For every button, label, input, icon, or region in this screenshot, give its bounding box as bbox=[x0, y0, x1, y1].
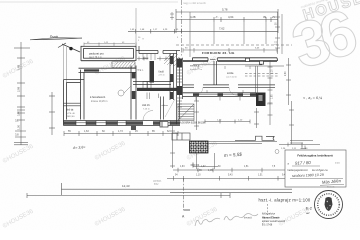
svg-text:lev.d.figar.ca: lev.d.figar.ca bbox=[312, 168, 328, 172]
svg-text:főmérnök: főmérnök bbox=[327, 186, 335, 188]
big room right wall bbox=[131, 66, 136, 120]
svg-text:2,11: 2,11 bbox=[276, 40, 278, 45]
svg-text:1,63: 1,63 bbox=[180, 166, 185, 168]
stamp box bbox=[285, 150, 346, 187]
dim chain below right block bbox=[205, 120, 250, 124]
left steps structure bbox=[172, 133, 190, 140]
masonry piers shared wall bbox=[177, 59, 182, 96]
mark above box bbox=[301, 146, 307, 149]
svg-text:építész vezető tervező: építész vezető tervező bbox=[262, 220, 286, 223]
svg-text:Felülvizsgálva lordelkezett: Felülvizsgálva lordelkezett bbox=[297, 153, 332, 157]
svg-text:1,73: 1,73 bbox=[118, 130, 123, 133]
terrace inner line bbox=[193, 64, 262, 66]
svg-text:lérg a.: lérg a. bbox=[138, 69, 144, 72]
lowest dim line bbox=[27, 193, 230, 198]
lines from chimney bbox=[208, 142, 277, 144]
lower terrace wall bbox=[235, 136, 275, 140]
bath wall dark segs bbox=[170, 56, 173, 99]
left dim label marks bbox=[15, 110, 26, 137]
top dim extension verticals right block bbox=[190, 12, 282, 57]
svg-text:krónt: krónt bbox=[335, 162, 340, 165]
bottom dim chain row 2 bbox=[167, 176, 292, 181]
svg-text:-7-: -7- bbox=[215, 15, 218, 19]
watermark grid small bbox=[2, 55, 311, 230]
bottom dim chain row 1 bbox=[173, 168, 292, 173]
svg-text:padozat pro: padozat pro bbox=[89, 52, 104, 56]
tick cluster mid bbox=[170, 12, 174, 20]
svg-text:tervező:: tervező: bbox=[244, 217, 253, 220]
svg-text:Hámori Elemér: Hámori Elemér bbox=[262, 217, 280, 220]
right dim tiny texts bbox=[272, 22, 288, 99]
svg-text:előszo: előszo bbox=[162, 105, 169, 107]
svg-text:39: 39 bbox=[263, 15, 267, 19]
dashed property line bbox=[176, 44, 292, 46]
svg-text:hszt.-i. alaprajz m=1:100: hszt.-i. alaprajz m=1:100 bbox=[259, 197, 311, 202]
svg-text:1,51: 1,51 bbox=[258, 174, 263, 176]
middle section top walls bbox=[136, 46, 180, 54]
svg-text:2,98: 2,98 bbox=[17, 86, 21, 92]
svg-text:1,85: 1,85 bbox=[272, 94, 274, 99]
bottom wall window mullions bbox=[76, 121, 170, 126]
svg-text:E-2: E-2 bbox=[306, 207, 312, 211]
tiny dim text row y29 bbox=[130, 29, 179, 31]
dim vertical below pier bbox=[254, 108, 259, 128]
svg-text:1,63: 1,63 bbox=[84, 130, 89, 133]
svg-text:2,10: 2,10 bbox=[272, 69, 274, 74]
staircase down bbox=[178, 104, 194, 121]
svg-text:szoba: szoba bbox=[227, 72, 234, 75]
svg-text:4,28: 4,28 bbox=[190, 15, 196, 19]
dim vertical right of stairs bbox=[194, 97, 199, 131]
terrace railing bar bbox=[183, 58, 278, 61]
corridor tick marks bbox=[147, 93, 159, 100]
room padozat outer wall bbox=[81, 46, 136, 60]
svg-text:ad: ad bbox=[306, 211, 310, 215]
chimney hatched bbox=[190, 141, 209, 153]
right block room divider bbox=[214, 61, 217, 85]
dim tick chain above terrace bbox=[183, 48, 277, 53]
right block mid wall bbox=[183, 85, 276, 87]
svg-text:1,51: 1,51 bbox=[244, 166, 249, 168]
right block bottom wall bbox=[183, 93, 257, 97]
left block top wall bbox=[79, 68, 137, 72]
svg-text:7,62: 7,62 bbox=[219, 27, 225, 31]
svg-text:5,T5L 40: 5,T5L 40 bbox=[67, 113, 76, 115]
north arrow spindle bbox=[30, 38, 82, 40]
middle thick wall y88 bbox=[137, 88, 180, 91]
signature squiggle bbox=[195, 214, 258, 227]
svg-text:12,43: 12,43 bbox=[122, 184, 130, 188]
section line dash-dot bbox=[181, 0, 183, 57]
svg-text:Észak: Észak bbox=[50, 34, 59, 39]
terrace steps zone verticals bbox=[245, 66, 284, 94]
svg-text:917 / 80: 917 / 80 bbox=[295, 160, 312, 166]
stair treads bbox=[143, 54, 155, 61]
door swings corridor bbox=[195, 87, 203, 95]
svg-text:kürtőlő - 7 rz: kürtőlő - 7 rz bbox=[190, 68, 202, 71]
svg-text:fürdő: fürdő bbox=[159, 71, 165, 74]
svg-text:mellért h.: mellért h. bbox=[190, 65, 200, 68]
svg-text:5,78: 5,78 bbox=[222, 8, 228, 12]
left block outer left wall bbox=[64, 80, 85, 125]
svg-text:1,05: 1,05 bbox=[208, 169, 213, 172]
bath left wall dark bbox=[150, 61, 155, 83]
svg-text:nagy s mlkl tervezői: nagy s mlkl tervezői bbox=[183, 1, 206, 5]
bottom dim texts bbox=[68, 130, 170, 133]
right wall pier dark bbox=[256, 93, 266, 107]
svg-text:FORDHOM 36. HG: FORDHOM 36. HG bbox=[202, 51, 235, 55]
left dim line bbox=[14, 42, 30, 145]
left dim line 2 bbox=[49, 92, 55, 135]
svg-text:k.feresbeszó: k.feresbeszó bbox=[90, 95, 106, 99]
bath fixtures bbox=[143, 82, 147, 89]
svg-text:A≈ 3,6≈: A≈ 3,6≈ bbox=[72, 145, 86, 150]
svg-text:kmése 10,26 m: kmése 10,26 m bbox=[91, 100, 107, 103]
north arrow pointer bbox=[58, 43, 80, 52]
svg-text:4,64: 4,64 bbox=[228, 15, 234, 19]
big room left wall bbox=[81, 70, 85, 120]
small circle mark bbox=[275, 150, 279, 154]
svg-text:5,43: 5,43 bbox=[228, 174, 233, 176]
big room right wall dark segs bbox=[132, 72, 136, 99]
circular stamp bbox=[315, 191, 343, 219]
svg-text:≈ , a₁ = 6,¼: ≈ , a₁ = 6,¼ bbox=[303, 96, 323, 100]
bottom wall left block bbox=[64, 121, 181, 126]
svg-text:denz 79,1 m: denz 79,1 m bbox=[89, 57, 102, 59]
hatched ramp sliver bbox=[112, 62, 135, 68]
top dim chain right section bbox=[128, 9, 278, 34]
room tick marks bbox=[198, 66, 250, 93]
tiny marks below dim row bbox=[138, 37, 179, 42]
railing posts bbox=[246, 58, 264, 64]
dim tick row mid section bbox=[137, 57, 170, 61]
left strip divider wall bbox=[64, 103, 81, 106]
Ob cross mark bbox=[191, 163, 196, 168]
svg-text:1,97: 1,97 bbox=[201, 166, 206, 168]
thin line under padozat bbox=[81, 60, 112, 62]
svg-text:Műszakisz: Műszakisz bbox=[262, 212, 276, 216]
section line A bottom bbox=[183, 178, 185, 210]
north arrow dot bbox=[69, 47, 72, 50]
right side dim chains bbox=[268, 58, 321, 147]
bottom dim chain under left block bbox=[64, 131, 178, 136]
svg-text:1,98: 1,98 bbox=[17, 64, 21, 70]
dims below chimney bbox=[193, 153, 218, 169]
svg-text:A,50·BRA 6,EBK BK15R: A,50·BRA 6,EBK BK15R bbox=[180, 122, 205, 125]
main bottom line bbox=[62, 183, 293, 195]
small room diag bbox=[165, 99, 175, 117]
bath room walls bbox=[170, 53, 173, 100]
svg-text:kkő tár.: kkő tár. bbox=[67, 109, 75, 112]
shared thick wall middle-right bbox=[177, 51, 183, 125]
big room door circle bbox=[118, 90, 124, 96]
svg-text:hatóanyagszámront: hatóanyagszámront bbox=[288, 169, 309, 172]
ciko room walls bbox=[161, 97, 164, 120]
left column dims below plan bbox=[170, 125, 175, 168]
svg-text:kúsz: kúsz bbox=[154, 184, 159, 186]
shared wall poche rungs bbox=[177, 70, 182, 107]
left wall extension lines bbox=[64, 44, 67, 83]
overhang dashed bbox=[245, 74, 279, 77]
entry stub below wall bbox=[131, 126, 136, 131]
section A corner mark bbox=[184, 209, 191, 211]
tiled room hatch bbox=[164, 53, 179, 66]
door swing bottom bbox=[143, 111, 153, 121]
dim ticks above padozat bbox=[84, 43, 136, 47]
right bottom wall masonry bbox=[193, 93, 256, 96]
tick marks below bottom wall bbox=[196, 97, 240, 101]
bottom wall masonry chunks bbox=[64, 121, 181, 125]
svg-text:2,40: 2,40 bbox=[285, 71, 287, 76]
top wall dark segment bbox=[84, 69, 99, 71]
small bench lower left bbox=[160, 122, 168, 128]
svg-text:1,10: 1,10 bbox=[196, 174, 201, 176]
bottom wall window lines bbox=[199, 94, 250, 96]
top dim texts bbox=[190, 8, 276, 31]
svg-text:can 7,10 m: can 7,10 m bbox=[226, 77, 237, 79]
left dim texts bbox=[17, 64, 21, 130]
scan artifact top line bbox=[0, 1, 178, 3]
svg-text:3,8: 3,8 bbox=[15, 133, 19, 137]
dashed leader bbox=[267, 204, 269, 215]
svg-text:7,16 m: 7,16 m bbox=[143, 109, 150, 111]
svg-text:RM 2,60: RM 2,60 bbox=[67, 116, 76, 118]
svg-text:2,75 m: 2,75 m bbox=[159, 75, 165, 77]
middle wall y81 bbox=[133, 82, 171, 85]
extension verticals left bbox=[135, 8, 137, 46]
svg-text:1,50: 1,50 bbox=[17, 124, 21, 130]
svg-text:szintvon.: szintvon. bbox=[153, 180, 162, 183]
svg-text:É-1-17-66: É-1-17-66 bbox=[262, 223, 273, 226]
svg-text:cikő 16.: cikő 16. bbox=[142, 104, 151, 107]
watermark big HOUSE 36 top right bbox=[283, 0, 360, 82]
svg-text:3,1: 3,1 bbox=[15, 119, 19, 123]
